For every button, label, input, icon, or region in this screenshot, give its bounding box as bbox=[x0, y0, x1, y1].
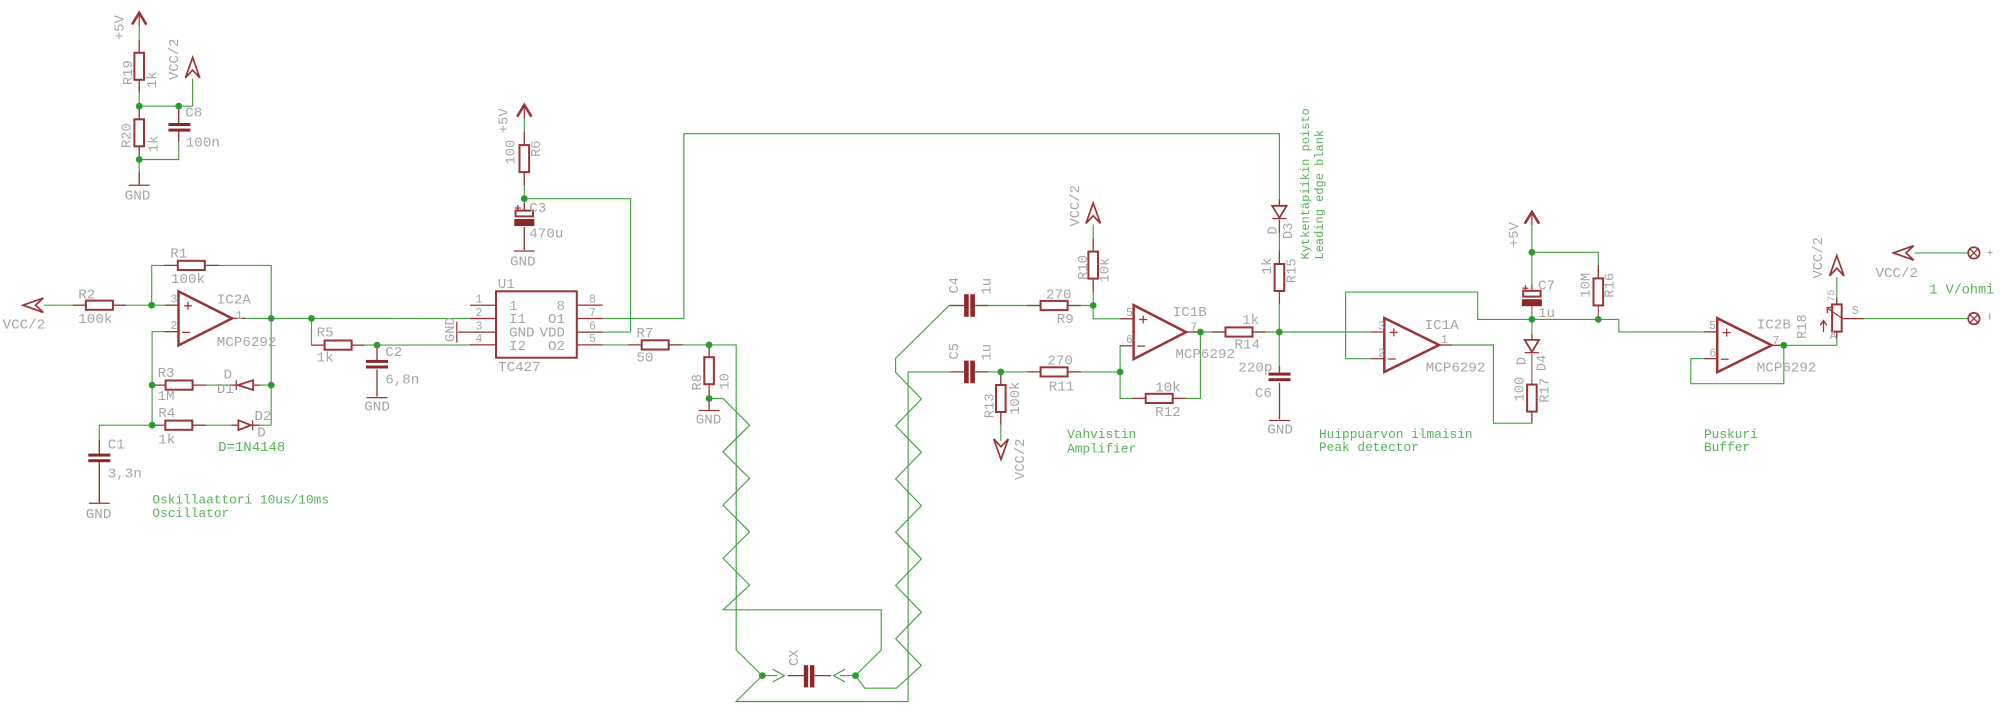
svg-text:I2: I2 bbox=[509, 339, 526, 355]
svg-text:R5: R5 bbox=[317, 326, 334, 342]
svg-text:7: 7 bbox=[589, 307, 596, 320]
svg-text:C1: C1 bbox=[108, 438, 125, 454]
svg-text:7: 7 bbox=[1190, 322, 1197, 335]
svg-text:GND: GND bbox=[510, 255, 536, 271]
svg-text:GND: GND bbox=[364, 400, 390, 416]
svg-text:GND: GND bbox=[444, 317, 459, 342]
svg-text:VCC/2: VCC/2 bbox=[1876, 266, 1919, 282]
svg-text:1M: 1M bbox=[158, 389, 175, 405]
svg-text:3,3n: 3,3n bbox=[108, 467, 142, 483]
svg-text:MCP6292: MCP6292 bbox=[1757, 361, 1817, 377]
svg-text:100k: 100k bbox=[1008, 382, 1024, 415]
svg-text:VCC/2: VCC/2 bbox=[1068, 185, 1084, 226]
svg-text:1k: 1k bbox=[1242, 313, 1259, 329]
svg-text:10k: 10k bbox=[1098, 258, 1114, 283]
svg-text:5: 5 bbox=[1126, 307, 1133, 320]
svg-text:R2: R2 bbox=[78, 288, 95, 304]
svg-text:IC1A: IC1A bbox=[1425, 318, 1460, 334]
svg-text:R7: R7 bbox=[636, 326, 653, 342]
svg-text:270: 270 bbox=[1046, 288, 1072, 304]
svg-text:IC2A: IC2A bbox=[217, 293, 252, 309]
svg-text:R1: R1 bbox=[170, 247, 187, 263]
svg-text:2: 2 bbox=[1378, 348, 1385, 361]
svg-text:1: 1 bbox=[476, 294, 483, 307]
svg-text:R14: R14 bbox=[1235, 337, 1261, 353]
svg-text:Vahvistin: Vahvistin bbox=[1067, 427, 1136, 442]
svg-text:U1: U1 bbox=[498, 277, 515, 293]
svg-text:Buffer: Buffer bbox=[1704, 440, 1750, 455]
svg-text:C8: C8 bbox=[185, 106, 202, 122]
svg-text:R15: R15 bbox=[1285, 258, 1300, 283]
svg-text:R4: R4 bbox=[158, 406, 175, 422]
svg-text:2: 2 bbox=[171, 320, 178, 333]
svg-text:D: D bbox=[1516, 357, 1531, 365]
svg-text:100: 100 bbox=[505, 140, 520, 165]
svg-text:Amplifier: Amplifier bbox=[1067, 441, 1136, 456]
svg-text:1 V/ohmi: 1 V/ohmi bbox=[1929, 283, 1994, 298]
svg-text:220p: 220p bbox=[1238, 360, 1272, 376]
svg-text:D3: D3 bbox=[1282, 223, 1297, 240]
svg-text:MCP6292: MCP6292 bbox=[1426, 360, 1486, 376]
svg-text:D=1N4148: D=1N4148 bbox=[218, 440, 285, 456]
svg-text:MCP6292: MCP6292 bbox=[1175, 347, 1235, 363]
svg-text:100: 100 bbox=[1513, 377, 1528, 402]
svg-text:1: 1 bbox=[236, 310, 243, 323]
svg-text:C2: C2 bbox=[385, 345, 402, 361]
svg-text:8: 8 bbox=[589, 294, 596, 307]
svg-text:10: 10 bbox=[719, 373, 734, 390]
svg-text:1k: 1k bbox=[317, 350, 334, 366]
svg-text:VCC/2: VCC/2 bbox=[1811, 237, 1827, 278]
svg-text:3: 3 bbox=[476, 320, 483, 333]
svg-text:R10: R10 bbox=[1077, 255, 1092, 280]
svg-text:6: 6 bbox=[1126, 334, 1133, 347]
svg-text:R9: R9 bbox=[1057, 312, 1074, 328]
svg-text:100k: 100k bbox=[171, 272, 205, 288]
svg-text:1u: 1u bbox=[981, 344, 996, 361]
svg-text:470u: 470u bbox=[529, 226, 563, 242]
svg-text:R19: R19 bbox=[122, 60, 137, 85]
svg-text:1k: 1k bbox=[158, 433, 175, 449]
svg-text:270: 270 bbox=[1047, 354, 1073, 370]
svg-text:IC2B: IC2B bbox=[1757, 317, 1791, 333]
svg-text:3: 3 bbox=[171, 293, 178, 306]
svg-text:R17: R17 bbox=[1539, 378, 1554, 403]
svg-text:TC427: TC427 bbox=[498, 360, 541, 376]
svg-text:VCC/2: VCC/2 bbox=[3, 318, 46, 334]
svg-text:R20: R20 bbox=[121, 123, 136, 148]
svg-text:1k: 1k bbox=[147, 136, 163, 153]
svg-text:C4: C4 bbox=[948, 277, 963, 294]
svg-text:Oskillaattori 10us/10ms: Oskillaattori 10us/10ms bbox=[152, 492, 329, 507]
svg-text:Leading edge blank: Leading edge blank bbox=[1313, 130, 1327, 260]
svg-text:R12: R12 bbox=[1155, 405, 1181, 421]
svg-text:1k: 1k bbox=[145, 71, 161, 88]
svg-text:75: 75 bbox=[1826, 289, 1838, 302]
svg-text:R18: R18 bbox=[1796, 314, 1811, 339]
svg-text:GND: GND bbox=[125, 189, 151, 205]
svg-text:R13: R13 bbox=[984, 393, 999, 418]
svg-text:R16: R16 bbox=[1604, 273, 1619, 298]
svg-text:IC1B: IC1B bbox=[1173, 305, 1207, 321]
svg-text:C5: C5 bbox=[948, 343, 963, 360]
svg-text:MCP6292: MCP6292 bbox=[217, 335, 277, 351]
svg-text:2: 2 bbox=[476, 307, 483, 320]
svg-text:100n: 100n bbox=[186, 136, 220, 152]
svg-text:GND: GND bbox=[86, 507, 112, 523]
svg-text:1k: 1k bbox=[1260, 258, 1276, 275]
svg-text:7: 7 bbox=[1773, 335, 1780, 348]
svg-text:10M: 10M bbox=[1580, 273, 1595, 298]
svg-text:100k: 100k bbox=[78, 312, 112, 328]
svg-text:5: 5 bbox=[1709, 320, 1716, 333]
svg-text:+5V: +5V bbox=[1508, 221, 1523, 247]
svg-text:D: D bbox=[257, 425, 266, 441]
svg-text:D: D bbox=[1266, 226, 1281, 234]
svg-text:VCC/2: VCC/2 bbox=[1013, 439, 1029, 480]
svg-text:GND: GND bbox=[696, 413, 722, 429]
svg-text:A: A bbox=[1830, 330, 1837, 343]
svg-text:Kytkentäpiikin poisto: Kytkentäpiikin poisto bbox=[1299, 108, 1313, 259]
svg-text:6: 6 bbox=[589, 320, 596, 333]
svg-text:Oscillator: Oscillator bbox=[152, 506, 229, 521]
svg-text:5: 5 bbox=[589, 333, 596, 346]
svg-text:50: 50 bbox=[636, 351, 653, 367]
svg-text:+: + bbox=[1987, 248, 1994, 261]
svg-text:GND: GND bbox=[1267, 422, 1293, 438]
svg-text:6: 6 bbox=[1709, 348, 1716, 361]
svg-text:C6: C6 bbox=[1255, 386, 1272, 402]
svg-text:R8: R8 bbox=[691, 374, 706, 391]
svg-text:R6: R6 bbox=[530, 140, 545, 157]
svg-text:D2: D2 bbox=[255, 409, 272, 425]
svg-text:VCC/2: VCC/2 bbox=[167, 39, 183, 80]
svg-text:+5V: +5V bbox=[113, 14, 128, 40]
svg-text:C3: C3 bbox=[529, 201, 546, 217]
svg-text:S: S bbox=[1852, 305, 1859, 318]
svg-text:1: 1 bbox=[1441, 334, 1448, 347]
svg-text:D4: D4 bbox=[1536, 355, 1551, 372]
svg-text:6,8n: 6,8n bbox=[385, 372, 419, 388]
svg-text:R11: R11 bbox=[1049, 379, 1075, 395]
svg-text:1u: 1u bbox=[1538, 306, 1555, 322]
svg-text:D1: D1 bbox=[217, 382, 234, 398]
svg-text:R3: R3 bbox=[158, 366, 175, 382]
svg-text:10k: 10k bbox=[1155, 381, 1181, 397]
svg-text:O2: O2 bbox=[548, 339, 565, 355]
svg-text:D: D bbox=[224, 367, 233, 383]
svg-text:1u: 1u bbox=[981, 278, 996, 295]
svg-text:Peak detector: Peak detector bbox=[1319, 440, 1419, 455]
svg-text:C7: C7 bbox=[1538, 278, 1555, 294]
svg-text:+5V: +5V bbox=[498, 108, 513, 134]
svg-text:4: 4 bbox=[476, 333, 483, 346]
svg-text:CX: CX bbox=[788, 649, 803, 666]
svg-text:3: 3 bbox=[1378, 320, 1385, 333]
